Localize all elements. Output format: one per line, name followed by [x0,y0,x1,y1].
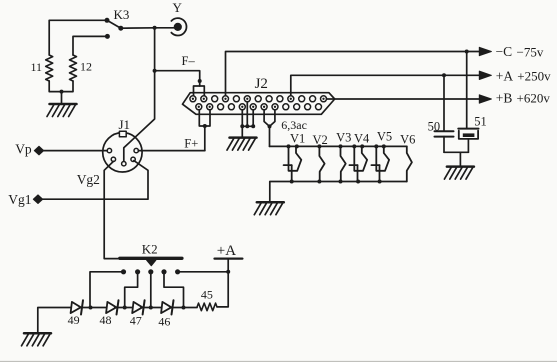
wire pole to Y jack [121,27,175,29]
J2 pin top 2 [201,96,207,102]
label V2 [313,133,328,147]
wire +A feed to resistor 45 [217,259,228,307]
svg-text:48: 48 [100,313,112,327]
J1 pin left [107,148,111,152]
label K3 [114,7,130,22]
J2 pin bottom 2 [207,104,213,110]
wire Vp to J1 left pin [43,150,107,152]
heater V5 [371,146,389,181]
label +B [496,91,513,106]
ground diode chain [22,333,52,346]
switch K3 lower contact [105,34,110,39]
svg-text:11: 11 [31,60,43,74]
label V4 [354,132,370,146]
junction V4 k [356,180,360,184]
svg-text:J2: J2 [255,76,268,92]
wire cap 51 bottom lead [467,139,469,152]
relay K2 contact 3 [148,269,153,274]
junction V5 a [374,144,378,148]
J2 pin top 1 [190,96,196,102]
wire F+ staple to J2 pins 14,15 [199,110,210,126]
junction tap 47-46 [149,306,153,310]
label +A bottom [217,243,236,259]
junction cap 50 tap [442,73,446,77]
wire F- staple to J2 pins 1,2 [194,86,205,96]
junction V1 k [290,180,294,184]
junction gnd bar b [245,124,249,128]
wire 46 to resistor 45 [170,307,197,309]
junction tap 46-45 [182,306,186,310]
J2 pin bottom 8 [272,104,278,110]
label Y [173,0,183,15]
capacitor 51 [458,129,478,139]
label +A [496,68,514,83]
svg-text:47: 47 [130,314,142,328]
label V5 [377,130,392,144]
wire F+ from J1 right pin [138,150,204,152]
label V1 [290,132,305,146]
J2 pin top 9 [277,96,283,102]
junction +A feed [226,270,230,274]
wire 48 to 47 [115,307,132,309]
svg-text:+B: +B [496,91,513,106]
wire chain to ground [38,308,71,333]
wire 47 to 46 [141,307,161,309]
label Vg1 [8,192,31,207]
relay K2 wiper arrow [147,260,156,266]
svg-text:+A: +A [496,68,514,83]
wire +B line from J2 pin [327,98,480,100]
svg-text:51: 51 [474,114,487,128]
svg-text:V6: V6 [400,132,415,146]
label 45 [201,287,213,301]
label V3 [336,131,351,145]
junction V2 a [317,144,321,148]
label 47 [130,314,142,328]
label J1 [119,117,131,132]
diode 46 [161,300,173,314]
junction V4 b [360,144,364,148]
junction tap 49-48 [89,306,93,310]
relay K2 contact 5 [175,269,180,274]
svg-text:Vg2: Vg2 [77,172,100,187]
wire heater top rail [270,145,407,147]
label V6 [400,132,415,146]
label K2 [142,242,158,257]
junction heater feed [268,124,272,128]
connector J2 body [183,93,335,115]
svg-text:K2: K2 [142,242,158,257]
J2 pin top 5 [233,96,239,102]
wire 49 to 48 [80,307,107,309]
wire cap 50 bottom lead [443,137,445,153]
switch K3 pole [118,26,123,31]
J2 pin top 11 [299,96,305,102]
heater V3 [341,146,346,181]
junction V5 b [382,144,386,148]
label 48 [100,313,112,327]
wire contact1 to diode tap [90,272,124,306]
svg-text:V2: V2 [313,133,328,147]
wire heater feed down [269,126,271,146]
wire Vg1 to J1 bottom-right pin [42,161,148,200]
label 49 [68,313,80,327]
svg-text:V3: V3 [336,131,351,145]
svg-text:+620v: +620v [517,91,551,106]
label J2 [255,76,268,92]
label +250v [517,68,551,83]
J2 pin bottom 5 [239,104,245,110]
junction V5 k [378,180,382,184]
wire cap 51 top lead [466,52,468,129]
heater V6 [407,146,412,181]
svg-text:−C: −C [496,44,513,59]
wire J2 heater pins join [264,110,275,126]
junction V3 a [339,144,343,148]
svg-text:Vg1: Vg1 [8,192,31,207]
svg-text:−75v: −75v [517,44,544,59]
wire +A line from J2 pin [291,75,480,95]
relay K2 contact 1 [121,269,126,274]
wire Y node down to J1 grid [124,28,155,162]
svg-text:Y: Y [173,0,183,15]
scan edge artifact bottom [0,360,557,362]
junction V3 k [339,180,343,184]
tube socket J1 key notch [119,131,126,137]
label +620v [517,91,551,106]
wire join to ground [61,92,63,104]
wire Vg2 net J1 to K2 [104,161,120,258]
wire heater bottom rail [270,182,407,203]
J2 pin bottom 1 [196,104,202,110]
label Vp [15,141,32,156]
ground heater rail [254,202,283,215]
wire contact2 to diode tap [125,272,138,306]
J2 pin top 7 [255,96,261,102]
svg-text:Vp: Vp [15,141,32,156]
resistor 12 [70,55,77,81]
J1 pin bottom-left [111,157,115,161]
ground caps [444,167,474,180]
diode 48 [106,300,118,314]
junction F- takeoff [153,69,157,73]
diode 49 [71,300,83,314]
J2 pin bottom 7 [261,104,267,110]
J2 pin bottom 4 [228,104,234,110]
junction gnd bar a [240,124,244,128]
svg-text:K3: K3 [114,7,130,22]
junction resistor join [60,90,64,94]
label F+ [184,136,198,150]
wire J2 ground pins [242,102,253,126]
J1 pin bottom-right [131,157,135,161]
wire F- net [155,71,200,86]
wire cap 50 top lead [443,75,445,131]
switch K3 arm [107,20,121,28]
J2 pin top 13 [321,96,327,102]
svg-text:46: 46 [158,315,170,329]
wire switch upper throw to resistor 11 [49,20,107,55]
junction cap 51 tap [465,50,469,54]
J2 pin top 8 [266,96,272,102]
junction gnd bar c [251,124,255,128]
arrow +B [479,95,491,103]
J2 pin bottom 10 [294,104,300,110]
wire -C line from J2 pin [226,52,480,96]
J2 pin top 12 [310,96,316,102]
J2 pin top 6 [244,96,250,102]
junction node Y line [153,26,157,30]
J2 pin top 10 [288,96,294,102]
J1 pin right [134,148,138,152]
J2 pin bottom 6 [250,104,256,110]
heater V4 [349,146,367,181]
wire contact4 to diode tap [164,272,184,306]
arrow -C [479,47,491,55]
wire contact5 to +A feed [178,271,229,273]
relay K2 contact 4 [161,269,166,274]
label 46 [158,315,170,329]
capacitor 50 [435,131,454,136]
svg-text:12: 12 [80,60,92,74]
label -75v [517,44,544,59]
svg-text:J1: J1 [119,117,131,132]
ground under resistors [47,104,77,117]
connector Y coax jack [169,18,186,35]
resistor 45 [197,303,217,311]
wire resistor bottoms join [49,81,73,92]
relay K2 bar [120,257,182,260]
junction F+ staple [203,124,207,128]
junction V4 a [352,144,356,148]
J1 pin center [122,162,126,166]
terminal +A bar [215,258,243,260]
svg-text:F+: F+ [184,136,198,150]
junction V2 k [317,180,321,184]
terminal Vg1 [33,195,42,204]
svg-text:V4: V4 [354,132,370,146]
J2 pin top 3 [212,96,218,102]
diode 47 [132,300,144,314]
resistor 11 [46,55,53,81]
wire caps join to ground [444,152,468,166]
svg-text:+250v: +250v [517,68,551,83]
svg-text:50: 50 [428,119,441,133]
junction tap 48-47 [123,306,127,310]
label -C [496,44,513,59]
junction V1 a [287,144,291,148]
J2 pin top 4 [223,96,229,102]
label 51 [474,114,487,128]
switch K3 upper contact [105,18,110,23]
svg-text:49: 49 [68,313,80,327]
wire switch lower throw to resistor 12 [73,36,107,55]
ground J2 shield [227,138,257,151]
wire gnd bar stem [241,126,243,137]
J2 pin bottom 12 [316,104,322,110]
svg-text:+A: +A [217,243,236,259]
label Vg2 [77,172,100,187]
label 11 [31,60,43,74]
junction F- staple [198,79,202,83]
svg-text:45: 45 [201,287,213,301]
label 6,3ac [281,118,307,132]
svg-text:V5: V5 [377,130,392,144]
label 12 [80,60,92,74]
heater V1 [284,146,302,181]
arrow +A [479,71,491,79]
heater V2 [319,146,324,181]
J2 pin bottom 9 [283,104,289,110]
tube socket J1 body [103,133,142,172]
J2 pin bottom 11 [305,104,311,110]
label 50 [428,119,441,133]
terminal Vp [34,146,43,155]
junction V1 b [295,144,299,148]
J2 pin bottom 3 [218,104,224,110]
svg-text:F–: F– [182,54,196,68]
label F- [182,54,196,68]
wire contact3 to diode tap [150,272,152,306]
wire F+ staple stem [204,126,206,151]
relay K2 contact 2 [135,269,140,274]
svg-text:V1: V1 [290,132,305,146]
svg-text:6,3ac: 6,3ac [281,118,307,132]
